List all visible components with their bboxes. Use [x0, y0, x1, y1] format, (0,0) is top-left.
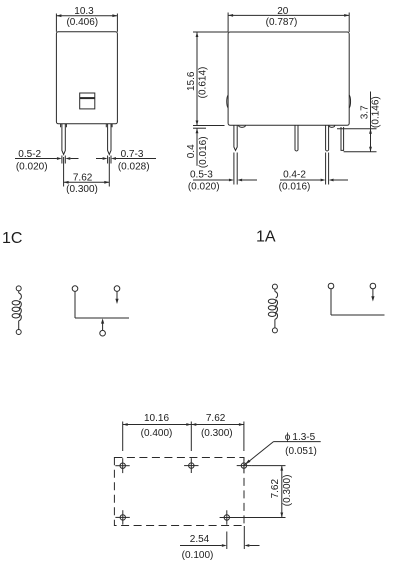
dim 7.62 line — [64, 181, 110, 183]
contact 1C blade wire — [75, 317, 129, 319]
dim 10.3 line — [56, 15, 117, 17]
contact 1C left fixed terminal — [72, 286, 78, 292]
dim 15.6 top extension line — [193, 31, 228, 33]
relay side view body — [56, 32, 117, 124]
svg-text:3.7: 3.7 — [360, 105, 371, 119]
dim 15.6 line — [196, 32, 198, 126]
dim 0.4 extension lines — [193, 126, 225, 129]
svg-text:10.3: 10.3 — [74, 6, 94, 17]
pcb dim 10.16 line — [123, 424, 244, 426]
dim 15.6 arrows — [196, 32, 199, 126]
pcb hole H4 bottom-left — [115, 510, 129, 524]
svg-text:(0.614): (0.614) — [197, 67, 208, 99]
contact 1C common terminal — [100, 330, 106, 336]
pcb hole H2 top-middle — [184, 458, 198, 473]
svg-text:0.4: 0.4 — [186, 144, 197, 158]
dim 0.7-3 extension lines — [108, 156, 111, 164]
dim 0.4 arrow — [196, 128, 199, 133]
coil 1A top terminal — [272, 284, 277, 289]
dim 7.62 arrows — [64, 181, 110, 184]
dim 3.7 extension lines — [337, 129, 377, 152]
pcb dim 7.62 right extension lines — [234, 466, 286, 518]
pcb dim 7.62 right arrows — [280, 466, 283, 518]
front view pin 1 — [234, 125, 237, 150]
side view window detail — [80, 93, 95, 109]
svg-text:(0.787): (0.787) — [266, 17, 298, 28]
dim 20 line — [228, 14, 349, 16]
pcb dim 2.54 line and arrows — [180, 545, 260, 547]
svg-text:1C: 1C — [2, 230, 22, 247]
svg-text:0.7-3: 0.7-3 — [121, 149, 144, 160]
front view bottom standoff bumps — [239, 125, 335, 127]
dim 0.4 tail line — [196, 128, 198, 166]
svg-text:(0.020): (0.020) — [16, 162, 48, 173]
coil 1C bottom terminal — [16, 330, 21, 335]
contact 1A NO terminal — [370, 283, 376, 289]
svg-text:15.6: 15.6 — [186, 71, 197, 91]
pcb hole H3 top-right — [237, 458, 251, 473]
pcb hole H5 bottom-right — [220, 510, 234, 524]
relay front view body — [228, 32, 349, 125]
svg-text:(0.020): (0.020) — [188, 181, 220, 192]
svg-text:7.62: 7.62 — [73, 172, 93, 183]
front view pin 4 — [341, 127, 344, 150]
side view right pin — [108, 124, 111, 155]
front view left side ear — [227, 95, 228, 108]
svg-text:(0.400): (0.400) — [141, 428, 173, 439]
dim 0.4-2 arrowheads — [321, 179, 334, 182]
dim 0.5-3 line and arrows — [193, 179, 257, 181]
dim 0.4-2 extension lines — [326, 153, 329, 185]
svg-text:7.62: 7.62 — [270, 479, 281, 499]
coil 1C top terminal — [16, 286, 21, 291]
dim 0.5-2 arrowheads — [57, 157, 70, 160]
coil 1A winding — [268, 289, 277, 328]
dim 0.4-2 line and arrows — [280, 179, 348, 181]
svg-text:7.62: 7.62 — [206, 413, 226, 424]
coil 1A bottom terminal — [272, 328, 277, 333]
contact 1C common arrow — [101, 318, 104, 330]
dim 0.5-3 extension lines — [234, 153, 237, 185]
coil 1C winding — [12, 291, 21, 330]
svg-text:10.16: 10.16 — [144, 413, 169, 424]
svg-text:0.5-3: 0.5-3 — [190, 170, 213, 181]
svg-text:(0.100): (0.100) — [182, 550, 214, 561]
pcb hole callout leader — [244, 442, 321, 466]
dim 10.3 arrows — [56, 14, 117, 17]
front view pin 3 — [326, 125, 329, 151]
contact 1C NO arrow — [115, 291, 118, 304]
dim 0.5-2 extension lines — [62, 156, 65, 164]
svg-text:1A: 1A — [256, 229, 276, 246]
svg-text:(0.016): (0.016) — [198, 136, 209, 168]
contact 1A left fixed terminal — [328, 283, 334, 289]
pcb dim 2.54 arrowheads — [222, 544, 250, 547]
pcb dim extension lines top — [123, 422, 244, 452]
pcb dim arrows — [123, 423, 244, 426]
dim 0.5-2 line and arrows — [15, 158, 79, 160]
contact 1C NO terminal — [114, 286, 120, 292]
svg-text:2.54: 2.54 — [190, 534, 210, 545]
contact 1A blade wire — [331, 314, 385, 316]
dim 0.7-3 line and arrows — [96, 158, 156, 160]
side view left pin shoulder — [61, 124, 67, 127]
contact 1A NO arrow — [371, 289, 374, 302]
svg-text:(0.300): (0.300) — [201, 428, 233, 439]
side view left pin — [62, 124, 65, 155]
front view pin 2 — [295, 125, 298, 151]
svg-text:(0.146): (0.146) — [371, 96, 382, 128]
dim 3.7 arrows — [369, 129, 372, 152]
svg-text:0.5-2: 0.5-2 — [18, 149, 41, 160]
dim 20 extension lines — [228, 13, 349, 33]
svg-text:(0.051): (0.051) — [285, 446, 317, 457]
svg-text:(0.016): (0.016) — [279, 181, 311, 192]
svg-text:(0.406): (0.406) — [66, 17, 98, 28]
svg-text:ϕ 1.3-5: ϕ 1.3-5 — [285, 432, 316, 443]
dim 0.7-3 arrowheads — [103, 157, 116, 160]
svg-text:20: 20 — [277, 6, 289, 17]
dim 20 arrows — [228, 14, 349, 17]
side view right pin shoulder — [106, 124, 112, 127]
svg-text:(0.300): (0.300) — [66, 184, 98, 195]
dim 7.62 extension lines — [64, 157, 110, 187]
pcb dim 7.62 right line — [281, 466, 283, 518]
dim 0.5-3 arrowheads — [229, 179, 242, 182]
svg-text:(0.028): (0.028) — [118, 162, 150, 173]
contact 1A left lead wire — [330, 289, 332, 315]
pcb dim 2.54 extension lines — [227, 526, 245, 549]
contact 1C left lead wire — [74, 291, 76, 318]
svg-text:(0.300): (0.300) — [282, 475, 293, 507]
dim 10.3 extension lines — [56, 14, 117, 32]
dim 3.7 line — [370, 92, 372, 152]
pcb hole H1 top-left — [115, 458, 129, 473]
pcb layout dashed outline — [114, 458, 244, 526]
svg-text:0.4-2: 0.4-2 — [283, 170, 306, 181]
front view right side ear — [349, 95, 350, 108]
